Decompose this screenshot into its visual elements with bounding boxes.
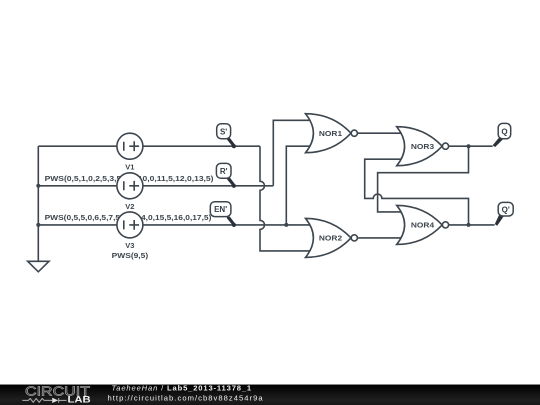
wire left ground bus (37, 146, 39, 261)
nor gate NOR1 (306, 114, 358, 153)
svg-text:LAB: LAB (68, 395, 91, 405)
wire NOR4 output to Q' (449, 224, 495, 226)
svg-text:S': S' (220, 127, 227, 136)
svg-text:V2: V2 (125, 202, 134, 211)
wire row EN' from V3 to NOR2 top input (143, 224, 311, 226)
wire R' riser up to NOR1 top input (273, 120, 310, 186)
svg-text:http://circuitlab.com/cb8v88z4: http://circuitlab.com/cb8v88z454r9a (108, 393, 264, 402)
wire row R' from bus to V2 (38, 185, 117, 187)
junction bus-R' (36, 184, 40, 188)
flag R' (216, 163, 236, 188)
svg-text:TaeheeHan / Lab5_2013-11378_1: TaeheeHan / Lab5_2013-11378_1 (112, 383, 253, 392)
junction NOR3 output (467, 144, 471, 148)
junction bus-EN' (36, 223, 40, 227)
nor gate NOR2 (306, 218, 358, 257)
voltage source V2 (117, 173, 143, 211)
nor gate NOR4 (397, 205, 449, 244)
wire NOR2 output to NOR4 bottom input (357, 237, 401, 239)
wire row R' from V2 to riser (143, 185, 273, 187)
svg-text:NOR4: NOR4 (411, 221, 435, 230)
logo diode triangle (52, 398, 58, 403)
wire NOR1 output to NOR3 top input (357, 132, 401, 134)
svg-text:EN': EN' (214, 205, 227, 214)
flag S' (217, 124, 236, 148)
svg-text:NOR3: NOR3 (411, 142, 434, 151)
wire NOR4 output feedback with hop to NOR3 bottom input (365, 159, 469, 225)
svg-text:Q: Q (501, 127, 507, 136)
svg-text:NOR1: NOR1 (319, 129, 342, 138)
svg-text:V1: V1 (125, 162, 134, 171)
svg-text:R': R' (220, 167, 228, 176)
ground (28, 261, 49, 272)
wire NOR3 output to Q (449, 145, 493, 147)
flag EN' (210, 202, 236, 227)
wire row S' from bus to V1 (38, 145, 117, 147)
svg-text:PWS(9,5): PWS(9,5) (112, 251, 149, 260)
junction NOR4 output (467, 223, 471, 227)
wire EN' riser up to NOR1 bottom input (286, 146, 310, 225)
footer bar (0, 385, 540, 405)
voltage source V3 (112, 212, 149, 260)
wire NOR3 output feedback to NOR4 top input (378, 146, 469, 212)
svg-text:NOR2: NOR2 (319, 234, 342, 243)
junction EN'-riser (284, 223, 288, 227)
wire S' riser down with hops over R' and EN' (260, 146, 311, 251)
wire row EN' from bus to V3 (38, 224, 117, 226)
svg-text:Q': Q' (502, 205, 510, 214)
flag Q' (495, 202, 513, 225)
voltage source V1 (117, 133, 143, 171)
flag Q (493, 123, 511, 147)
logo resistor zigzag and diode wire (22, 398, 66, 403)
svg-text:V3: V3 (125, 241, 134, 250)
nor gate NOR3 (397, 127, 449, 166)
wire row S' from V1 to corner (143, 145, 260, 147)
